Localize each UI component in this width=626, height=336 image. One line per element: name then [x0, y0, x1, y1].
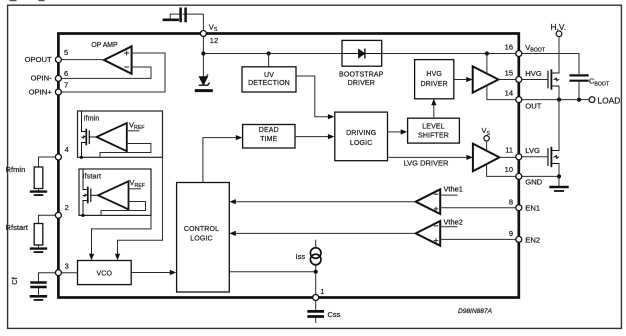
svg-text:DRIVER: DRIVER [348, 80, 375, 87]
ground (Cf) [31, 296, 46, 300]
wire: Q2 source to GND [558, 164, 560, 177]
LEVEL SHIFTER box [408, 118, 460, 143]
ground (zener) [196, 89, 211, 92]
wire: LVG buffer bottom to GND line [487, 164, 519, 177]
wire: Ifmin comparator feedback [100, 144, 151, 158]
svg-text:LOGIC: LOGIC [190, 236, 213, 243]
wire: pin3 to VCO [58, 272, 77, 274]
capacitor C-Vs plates [181, 9, 186, 21]
svg-text:7: 7 [64, 81, 68, 90]
pin 7 [55, 89, 61, 95]
wire: HVG buffer bottom to OUT [487, 86, 519, 100]
svg-text:HVG: HVG [426, 71, 442, 78]
svg-text:UV: UV [264, 72, 274, 79]
svg-text:3: 3 [65, 261, 69, 270]
HVG DRIVER box [415, 60, 454, 99]
wire: pin8 EN1 to Vthe1 [440, 207, 519, 209]
svg-text:OPOUT: OPOUT [25, 55, 52, 64]
Vthe2 minus sign [434, 225, 437, 227]
svg-text:LEVEL: LEVEL [422, 124, 445, 131]
svg-text:DEAD: DEAD [259, 127, 279, 134]
svg-text:Iss: Iss [296, 252, 306, 261]
ground (power) [551, 187, 568, 191]
arrowhead into VCO (right) [115, 254, 120, 261]
DEAD TIME box [243, 125, 295, 149]
pin 8 [516, 205, 522, 211]
svg-text:6: 6 [64, 69, 68, 78]
pin 16 [516, 51, 522, 57]
zener diode DZ [199, 75, 209, 86]
Ifmin comparator triangle [97, 123, 127, 151]
wire: driving logic to LVG buffer [388, 156, 469, 158]
terminal H.V. [556, 31, 562, 37]
LVG buffer triangle [473, 144, 500, 172]
svg-text:14: 14 [505, 88, 513, 97]
svg-text:10: 10 [505, 165, 513, 174]
svg-text:VREF: VREF [129, 120, 144, 131]
wire: Vs rail y=53.5 [203, 54, 579, 74]
wire: Vthe1 output to control logic [234, 201, 416, 203]
resistor Rfstart [34, 215, 58, 247]
arrowhead into HVG buffer [466, 77, 473, 82]
wire: dead time to driving logic [295, 136, 330, 138]
svg-text:12: 12 [210, 36, 218, 45]
wire: HVG driver to HVG buffer [454, 79, 468, 81]
wire: H.V. to Q1 drain [558, 37, 560, 73]
BOOTSTRAP DRIVER box [342, 40, 382, 66]
capacitor Css [309, 301, 323, 323]
node: M1 source junction [80, 156, 83, 159]
op-amp minus sign [125, 66, 129, 68]
node: GND junction [557, 174, 561, 178]
wire: Iss top stub [315, 240, 317, 248]
svg-text:HVG: HVG [525, 69, 542, 78]
wire: Cboot to OUT [578, 82, 580, 100]
current source Iss [310, 248, 321, 265]
Vthe1 plus sign [434, 207, 438, 211]
pin 10 [516, 173, 522, 179]
node: Vs rail junction at pin12 [201, 51, 205, 55]
svg-text:Cf: Cf [10, 276, 19, 284]
wire: Iss to control logic [229, 271, 315, 273]
wire: Ifstart VREF stub [129, 188, 141, 190]
svg-text:OUT: OUT [525, 101, 541, 110]
transistor Q1 (high side) [548, 70, 559, 89]
svg-text:EN2: EN2 [525, 235, 540, 244]
arrowhead into level shifter [401, 129, 408, 134]
svg-text:4: 4 [65, 145, 69, 154]
svg-text:DRIVING: DRIVING [346, 130, 376, 137]
Vthe1 minus sign [434, 193, 437, 195]
svg-text:LOAD: LOAD [598, 96, 621, 106]
node: M2 source junction [81, 214, 84, 217]
HVG buffer triangle [473, 66, 499, 92]
svg-text:Ifmin: Ifmin [84, 115, 100, 122]
wire: OUT to Q2 drain [558, 100, 560, 151]
VCO box [78, 261, 132, 285]
op-amp plus sign [125, 51, 129, 55]
CONTROL LOGIC box [177, 183, 230, 293]
wire: UV detection to driving logic [296, 76, 330, 117]
Ifstart block box [79, 169, 151, 215]
terminal Vs (LVG supply) [484, 136, 489, 141]
IC outline [58, 34, 518, 298]
wire: op-amp - input loop to pin6 [58, 67, 151, 78]
svg-text:VS: VS [209, 22, 218, 33]
pin 15 [516, 77, 522, 83]
svg-text:Vthe1: Vthe1 [444, 184, 463, 193]
svg-text:Ifstart: Ifstart [83, 174, 102, 181]
diode D1 (bootstrap) [342, 49, 382, 58]
wire: OPOUT pin5 to op-amp output [58, 59, 104, 61]
pin 11 [516, 154, 522, 160]
wire: HVG buffer to pin15 [498, 79, 518, 81]
svg-text:8: 8 [509, 198, 513, 207]
Vthe2 comparator triangle [416, 221, 441, 246]
top edge text debris [10, 0, 45, 1]
Ifmin block box [78, 111, 163, 157]
svg-text:VS: VS [482, 126, 491, 137]
svg-text:LOGIC: LOGIC [350, 140, 373, 147]
arrowhead into HVG driver [431, 99, 436, 106]
wire: op-amp + input loop to pin7 [58, 53, 165, 92]
svg-text:TIME: TIME [260, 136, 278, 143]
pin 9 [516, 236, 522, 242]
terminal LOAD [589, 97, 595, 103]
arrowhead VCO to control logic [170, 270, 177, 275]
svg-text:Rfstart: Rfstart [6, 223, 29, 232]
arrowhead into driving logic (dead time) [328, 134, 335, 139]
svg-text:LVG: LVG [525, 146, 540, 155]
svg-text:SHIFTER: SHIFTER [418, 132, 449, 139]
wire: Ifstart output to VCO [92, 215, 152, 255]
svg-text:CONTROL: CONTROL [184, 226, 219, 233]
wire: control logic to dead time [203, 138, 238, 183]
wire: Q1 source to OUT [558, 86, 560, 100]
op-amp U1 triangle [104, 46, 132, 74]
pin 4 [55, 154, 61, 160]
svg-text:H.V.: H.V. [551, 22, 567, 32]
svg-text:BOOTSTRAP: BOOTSTRAP [339, 72, 384, 79]
arrowhead into VCO (left) [89, 254, 94, 261]
wire: driving logic to level shifter [388, 131, 403, 133]
svg-text:OPIN-: OPIN- [31, 74, 53, 83]
arrowhead into LVG buffer [466, 155, 473, 160]
svg-text:EN1: EN1 [525, 204, 540, 213]
svg-text:OP AMP: OP AMP [91, 42, 118, 49]
ground (Vs decoupling) [164, 18, 178, 21]
Vthe2 plus sign [434, 239, 438, 243]
wire: LVG buffer to pin11 [499, 156, 518, 158]
DRIVING LOGIC box [335, 112, 388, 161]
node: Vboot supply tap [485, 51, 489, 55]
svg-text:OPIN+: OPIN+ [29, 87, 53, 96]
UV DETECTION box [242, 67, 296, 92]
svg-text:VBOOT: VBOOT [525, 43, 546, 54]
wire: VCO to control logic [131, 272, 171, 274]
svg-text:GND: GND [525, 177, 542, 186]
svg-text:15: 15 [505, 68, 513, 77]
svg-text:Rfmin: Rfmin [6, 165, 26, 174]
svg-text:LVG DRIVER: LVG DRIVER [404, 158, 449, 167]
wire: OUT line to LOAD [519, 99, 589, 101]
wire: pin10 GND line [519, 176, 559, 185]
arrowhead into driving logic (UV) [328, 114, 335, 119]
wire: Vboot to HVG buffer top [486, 54, 488, 74]
svg-text:D98IN887A: D98IN887A [458, 308, 493, 315]
svg-text:11: 11 [505, 146, 513, 155]
ground (Rfstart) [31, 249, 46, 253]
svg-text:5: 5 [64, 48, 68, 57]
wire: Vthe2 reference stub [440, 226, 457, 228]
wire: pin12 vertical [202, 37, 204, 77]
svg-text:1: 1 [320, 287, 324, 296]
pin 6 [55, 75, 61, 81]
transistor M2 (Ifstart) [83, 169, 98, 215]
svg-text:16: 16 [505, 42, 513, 51]
transistor Q2 (low side) [548, 148, 559, 167]
wire: Vthe2 output to control logic [234, 232, 416, 234]
wire: Iss to pin1 [315, 264, 317, 297]
node: OUT at Cboot [577, 98, 581, 102]
svg-text:Vthe2: Vthe2 [444, 217, 463, 226]
capacitor Cf [32, 273, 59, 295]
wire: pin11 LVG to Q2 gate [519, 156, 548, 158]
ground (Rfmin) [31, 192, 46, 196]
wire: Vthe1 reference stub [440, 194, 457, 196]
svg-text:DRIVER: DRIVER [421, 81, 448, 88]
node: UV detection tap [267, 51, 271, 55]
pin 2 [55, 212, 61, 218]
pin 3 [55, 270, 61, 276]
pin 5 [55, 57, 61, 63]
svg-text:VREF: VREF [130, 178, 145, 189]
svg-text:Css: Css [328, 310, 341, 319]
Ifstart comparator triangle [98, 181, 129, 209]
wire: Ifmin VREF stub [127, 130, 139, 132]
svg-text:VCO: VCO [96, 270, 112, 277]
svg-text:2: 2 [65, 203, 69, 212]
pin 12 [200, 31, 206, 37]
arrowhead Vthe2 into control logic [229, 231, 236, 236]
arrowhead into dead time [236, 135, 243, 140]
node: Iss junction [314, 270, 318, 274]
resistor Rfmin [34, 157, 58, 191]
svg-text:9: 9 [509, 229, 513, 238]
wire: UV detection drop [268, 54, 270, 67]
wire: pin9 EN2 to Vthe2 [440, 238, 519, 240]
svg-text:DETECTION: DETECTION [248, 80, 290, 87]
transistor M1 (Ifmin) [82, 111, 97, 157]
arrowhead Vthe1 into control logic [229, 199, 236, 204]
node: OUT at Q-half-bridge [557, 98, 561, 102]
capacitor Cboot [571, 75, 588, 80]
wire: Vs decoupling capacitor leads [170, 14, 203, 31]
Vthe1 comparator triangle [416, 189, 441, 214]
wire: Ifmin output to VCO [118, 157, 163, 255]
wire: Vs terminal to LVG buffer top [486, 141, 488, 151]
pin 1 [313, 295, 319, 301]
pin 14 [516, 97, 522, 103]
wire: level shifter to HVG driver [433, 104, 435, 119]
wire: Ifstart comparator feedback [101, 202, 146, 216]
svg-text:CBOOT: CBOOT [589, 77, 610, 88]
wire: pin15 HVG to Q1 gate [519, 79, 548, 81]
